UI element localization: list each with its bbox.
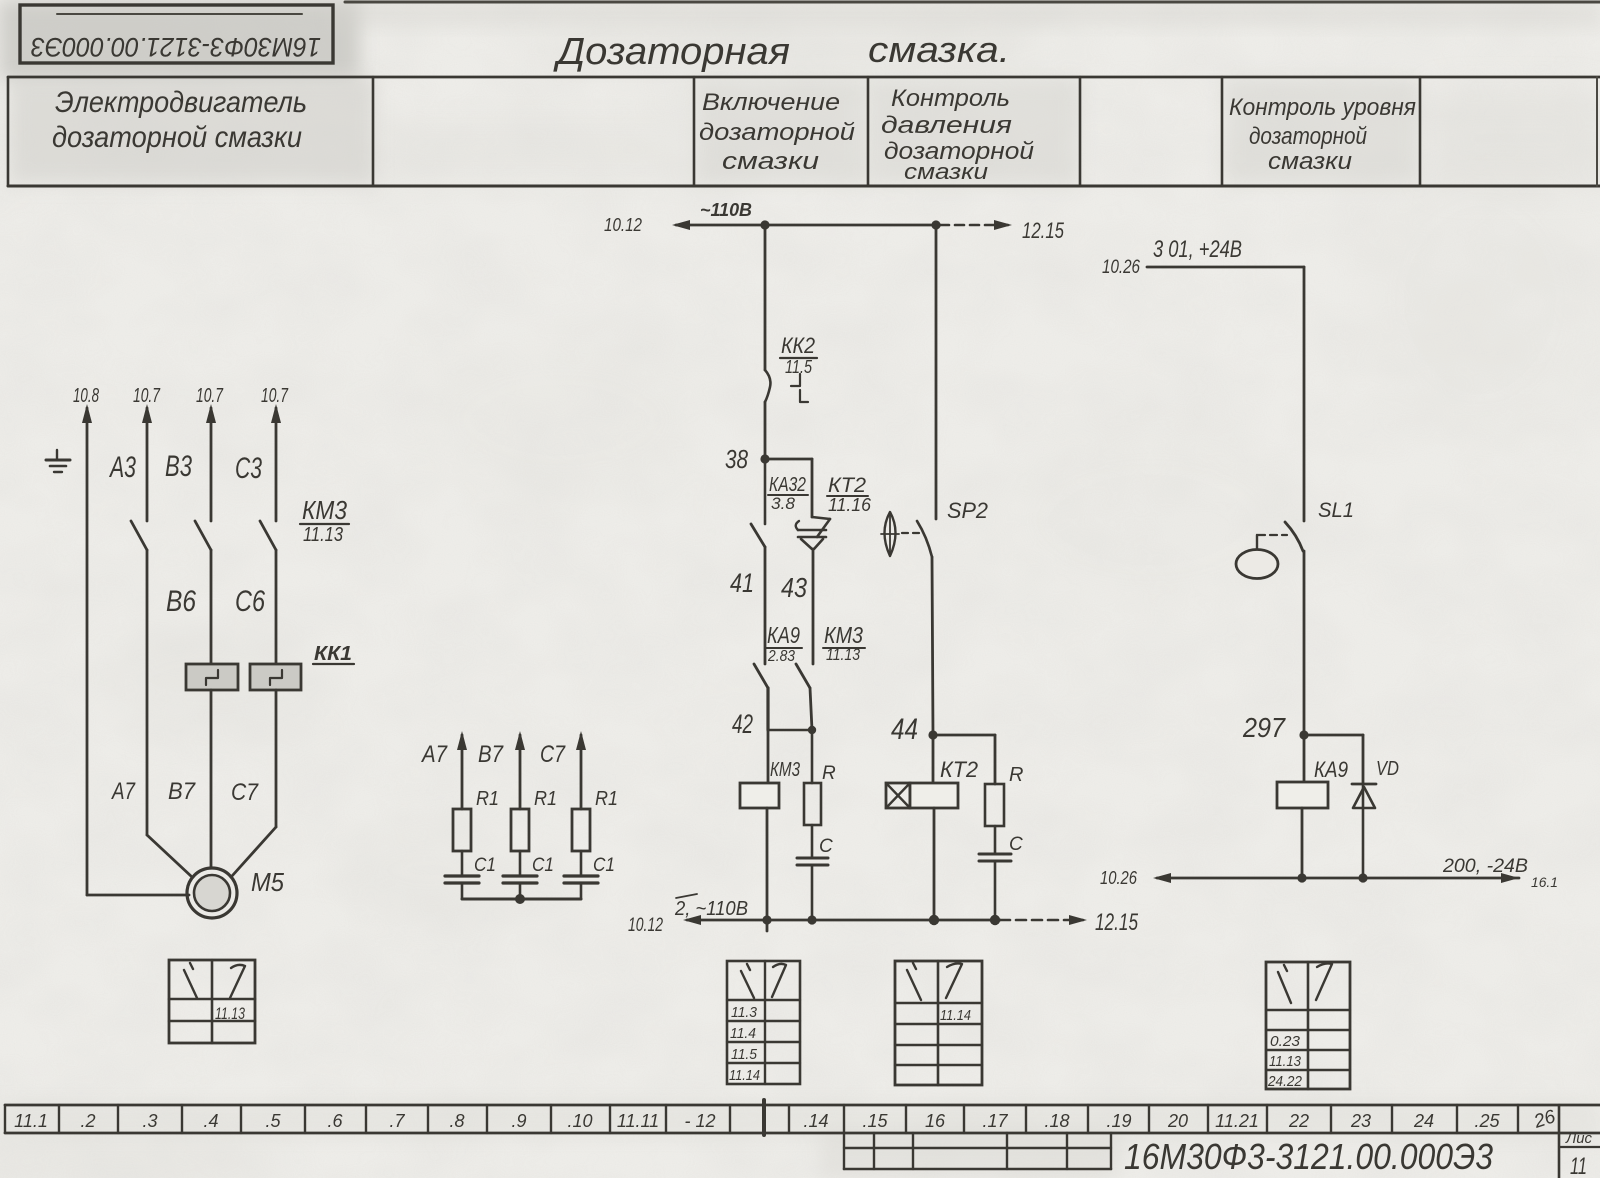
svg-text:А7: А7: [420, 741, 448, 768]
svg-text:10.7: 10.7: [261, 385, 289, 407]
stamp box 16M30F3 (rotated 180): [20, 5, 333, 63]
svg-text:2, ~110В: 2, ~110В: [674, 898, 748, 920]
resistor R1 (В7 branch): [511, 788, 557, 851]
svg-text:3 01, +24В: 3 01, +24В: [1153, 236, 1242, 263]
node RC/bus (KT2 branch): [990, 915, 1000, 925]
svg-text:.10: .10: [567, 1111, 592, 1131]
svg-text:R1: R1: [534, 788, 557, 810]
svg-text:смазки: смазки: [722, 148, 819, 175]
svg-text:11.5: 11.5: [731, 1046, 758, 1063]
svg-text:0.23: 0.23: [1270, 1033, 1301, 1050]
node VD/bus: [1358, 873, 1367, 882]
node KM3-coil/bus: [762, 915, 771, 924]
wire B7 to motor: [168, 690, 211, 868]
svg-text:.18: .18: [1044, 1111, 1069, 1131]
wire node38 branch to 43: [765, 459, 812, 517]
wire RC common node: [462, 894, 581, 904]
svg-text:В3: В3: [165, 450, 192, 483]
svg-text:11.11: 11.11: [617, 1111, 659, 1131]
wire phase C (10.7 / C3 / C6 / C7): [235, 385, 289, 521]
wire coil KT2 to bus: [933, 808, 936, 920]
wire С7 arrow of RC network: [540, 731, 586, 809]
capacitor C1 (А7 branch): [445, 851, 496, 899]
wire coil KA9 to bus: [1301, 808, 1304, 878]
thermal relay KK1 heater phase B: [186, 664, 238, 690]
contact KA9 (left): [754, 664, 768, 688]
svg-text:С: С: [1009, 834, 1023, 855]
sheet title: [553, 29, 1010, 73]
sheet top edge line: [345, 1, 1600, 4]
svg-text:R: R: [822, 763, 836, 784]
label KK1: [313, 643, 354, 665]
node 44: [891, 713, 938, 746]
svg-text:КА32: КА32: [769, 474, 806, 496]
svg-text:.4: .4: [203, 1111, 218, 1131]
svg-text:С1: С1: [474, 855, 496, 876]
svg-text:дозаторной: дозаторной: [1249, 123, 1367, 150]
resistor R (KM3 branch): [804, 730, 836, 825]
svg-text:42: 42: [732, 709, 753, 739]
svg-text:КА9: КА9: [1314, 757, 1348, 782]
level switch SL1: [1236, 499, 1354, 735]
wire B6 segment: [166, 550, 211, 664]
label KT2 11.16: [827, 474, 872, 515]
svg-text:3.8: 3.8: [771, 494, 796, 513]
svg-text:В6: В6: [166, 585, 196, 618]
svg-text:Электродвигатель: Электродвигатель: [55, 86, 307, 119]
wire А7 arrow of RC network: [420, 731, 467, 809]
svg-text:10.12: 10.12: [628, 915, 663, 936]
svg-text:11.3: 11.3: [731, 1004, 758, 1021]
header col6 text: [1229, 94, 1416, 175]
svg-text:.2: .2: [80, 1111, 95, 1131]
svg-text:А7: А7: [110, 778, 136, 805]
svg-text:.19: .19: [1106, 1111, 1131, 1131]
contactor contact KM3 phase C: [260, 521, 276, 550]
svg-text:11.13: 11.13: [1269, 1053, 1302, 1070]
svg-text:11.13: 11.13: [826, 645, 860, 664]
svg-text:.8: .8: [449, 1111, 464, 1131]
svg-text:43: 43: [781, 572, 807, 603]
node 38: [725, 444, 770, 474]
sheet number block: [1559, 1105, 1600, 1178]
contact table KM3 (11.13): [169, 960, 255, 1043]
wire A to motor: [110, 550, 192, 877]
svg-text:Дозаторная: Дозаторная: [553, 31, 790, 73]
node bus/SP2: [931, 220, 940, 229]
title block grid: [844, 1133, 1111, 1169]
svg-text:11.14: 11.14: [940, 1007, 971, 1024]
bus 2,~110V bottom (10.12 to 12.15): [628, 894, 1138, 936]
bus ~110V top (10.12 to 12.15): [604, 200, 1065, 243]
capacitor C1 (В7 branch): [503, 851, 554, 899]
bus 200,-24V (10.26 to 16.1): [1100, 856, 1558, 890]
contact table KA9 (0.23/11.13/24.22): [1266, 962, 1350, 1090]
header col3 text: [699, 89, 855, 175]
svg-text:.5: .5: [265, 1111, 281, 1131]
coil KA9: [1277, 735, 1348, 808]
svg-text:10.26: 10.26: [1100, 868, 1138, 888]
svg-text:.14: .14: [803, 1111, 828, 1131]
svg-text:R1: R1: [476, 788, 499, 810]
svg-text:R1: R1: [595, 788, 618, 810]
svg-text:11.13: 11.13: [215, 1004, 245, 1023]
svg-text:11.1: 11.1: [14, 1111, 48, 1131]
bottom numbering strip: [5, 1100, 1600, 1135]
svg-text:.7: .7: [389, 1111, 405, 1131]
contact table KT2 (11.14): [895, 961, 982, 1085]
svg-text:.25: .25: [1474, 1111, 1500, 1131]
svg-text:44: 44: [891, 713, 918, 746]
ground symbol: [46, 450, 70, 472]
svg-text:КК1: КК1: [314, 643, 352, 665]
svg-text:24: 24: [1413, 1111, 1434, 1131]
label KA9 2.83: [766, 622, 802, 665]
contactor contact KM3 phase A: [131, 521, 147, 550]
svg-text:10.7: 10.7: [133, 385, 161, 407]
svg-text:10.7: 10.7: [196, 385, 224, 407]
svg-text:.9: .9: [511, 1111, 526, 1131]
svg-text:Контроль уровня: Контроль уровня: [1229, 94, 1416, 121]
svg-text:.15: .15: [862, 1111, 888, 1131]
svg-text:С7: С7: [231, 779, 259, 806]
node KT2-coil/bus: [929, 915, 939, 925]
svg-text:Контроль: Контроль: [891, 85, 1010, 112]
contact table KM3 aux (11.3/11.4/11.5/11.14): [727, 961, 800, 1084]
wire +24V feed (10.26 / 3 01,+24V): [1102, 236, 1304, 521]
thermal contact KK2 11.5: [765, 333, 817, 402]
svg-text:24.22: 24.22: [1267, 1073, 1302, 1090]
svg-text:2.83: 2.83: [767, 648, 795, 665]
label KM3 11.13: [823, 622, 865, 664]
motor M5: [187, 867, 284, 918]
wire from bus to KK2: [764, 225, 767, 370]
contactor contact KM3 phase B: [195, 521, 211, 550]
svg-text:16: 16: [925, 1111, 946, 1131]
svg-text:R: R: [1009, 764, 1023, 786]
wire to node 42: [732, 688, 812, 739]
svg-text:11.13: 11.13: [303, 524, 343, 546]
svg-text:200, -24В: 200, -24В: [1442, 856, 1528, 877]
contact KA32 (wire 41): [730, 459, 765, 664]
svg-text:297: 297: [1242, 712, 1286, 743]
resistor R (KT2 branch): [985, 764, 1023, 826]
svg-text:41: 41: [730, 568, 754, 598]
svg-text:смазка.: смазка.: [868, 29, 1010, 70]
svg-text:КМ3: КМ3: [302, 495, 347, 525]
node 42/43 junction: [808, 726, 816, 734]
node bus/KK2: [760, 220, 769, 229]
svg-text:20: 20: [1167, 1111, 1188, 1131]
svg-text:23: 23: [1350, 1111, 1371, 1131]
wire phase B (10.7 / B3 / B6 / B7): [165, 385, 224, 521]
svg-text:КТ2: КТ2: [828, 474, 866, 497]
time contact KT2 (wire 43): [781, 517, 830, 664]
svg-text:смазки: смазки: [904, 159, 988, 184]
svg-text:дозаторной: дозаторной: [699, 119, 855, 146]
svg-text:КК2: КК2: [781, 333, 815, 358]
wire node44 to R branch: [933, 735, 995, 784]
svg-text:11.5: 11.5: [785, 357, 813, 377]
node KA9/bus: [1297, 873, 1306, 882]
capacitor C (KT2 branch): [979, 826, 1023, 920]
svg-text:С6: С6: [235, 585, 265, 618]
resistor R1 (С7 branch): [572, 788, 618, 851]
svg-text:дозаторной смазки: дозаторной смазки: [52, 121, 302, 154]
header table frame: [8, 77, 1600, 186]
svg-text:КМ3: КМ3: [770, 759, 800, 781]
svg-text:38: 38: [725, 444, 748, 474]
wire coil KM3 to bus: [766, 808, 769, 931]
pressure switch SP2: [881, 498, 988, 735]
svg-text:В7: В7: [168, 778, 197, 805]
capacitor C1 (С7 branch): [564, 851, 615, 899]
wire C7 to motor: [231, 690, 276, 876]
svg-text:16М30Ф3-3121.00.000Э3: 16М30Ф3-3121.00.000Э3: [31, 32, 321, 62]
svg-text:12.15: 12.15: [1095, 909, 1138, 936]
wire phase-bus 10.8 (ground wire to motor): [73, 385, 189, 895]
svg-text:С: С: [819, 836, 833, 857]
wire В7 arrow of RC network: [478, 731, 525, 809]
svg-text:А3: А3: [109, 451, 137, 484]
coil KM3: [740, 730, 800, 808]
svg-text:16.1: 16.1: [1531, 874, 1558, 890]
svg-text:11: 11: [1570, 1153, 1587, 1178]
svg-text:11.4: 11.4: [730, 1025, 756, 1042]
header col4 text: [881, 85, 1034, 184]
svg-text:Лис: Лис: [1565, 1130, 1592, 1147]
svg-text:М5: М5: [251, 867, 284, 897]
thermal relay KK1 heater phase C: [250, 664, 301, 690]
svg-text:11.21: 11.21: [1215, 1111, 1259, 1131]
label KM3 11.13 for main contacts: [300, 495, 349, 546]
wire phase A (10.7 / A3 / A7): [109, 385, 161, 521]
svg-text:С3: С3: [235, 452, 262, 485]
node RC/bus (KM3 branch): [807, 915, 816, 924]
svg-text:10.26: 10.26: [1102, 257, 1140, 278]
svg-text:С1: С1: [593, 855, 615, 876]
svg-text:смазки: смазки: [1268, 148, 1352, 175]
svg-text:Включение: Включение: [702, 89, 840, 116]
svg-text:SL1: SL1: [1318, 499, 1354, 522]
svg-text:- 12: - 12: [684, 1111, 715, 1131]
svg-text:10.8: 10.8: [73, 385, 99, 407]
wire from bus to SP2: [935, 225, 938, 519]
label KA32 3.8: [768, 474, 808, 513]
wire node297 to diode branch: [1304, 735, 1363, 784]
node 297: [1242, 712, 1308, 743]
svg-text:SP2: SP2: [947, 498, 988, 523]
coil KT2: [886, 735, 978, 808]
wire KK2 to node 38: [764, 402, 767, 459]
svg-text:.17: .17: [982, 1111, 1008, 1131]
header col1 text: [52, 86, 307, 154]
capacitor C (KM3 branch): [797, 825, 833, 920]
svg-text:КТ2: КТ2: [940, 757, 978, 782]
diode VD: [1352, 758, 1399, 878]
wire C6 segment: [235, 550, 276, 664]
resistor R1 (А7 branch): [453, 788, 499, 851]
svg-text:.6: .6: [327, 1111, 343, 1131]
svg-text:В7: В7: [478, 741, 504, 768]
svg-text:С1: С1: [532, 855, 554, 876]
contact KM3 (right): [796, 664, 810, 688]
svg-text:10.12: 10.12: [604, 215, 642, 235]
svg-text:КА9: КА9: [767, 622, 800, 648]
svg-text:.3: .3: [142, 1111, 157, 1131]
svg-text:давления: давления: [881, 112, 1012, 139]
svg-text:12.15: 12.15: [1022, 218, 1065, 243]
svg-text:22: 22: [1288, 1111, 1309, 1131]
svg-text:VD: VD: [1376, 758, 1399, 780]
svg-text:11.16: 11.16: [828, 495, 872, 515]
svg-text:~110В: ~110В: [700, 200, 752, 220]
svg-text:16М30Ф3-3121.00.000Э3: 16М30Ф3-3121.00.000Э3: [1124, 1136, 1493, 1177]
svg-text:С7: С7: [540, 741, 566, 768]
svg-text:11.14: 11.14: [729, 1067, 760, 1084]
